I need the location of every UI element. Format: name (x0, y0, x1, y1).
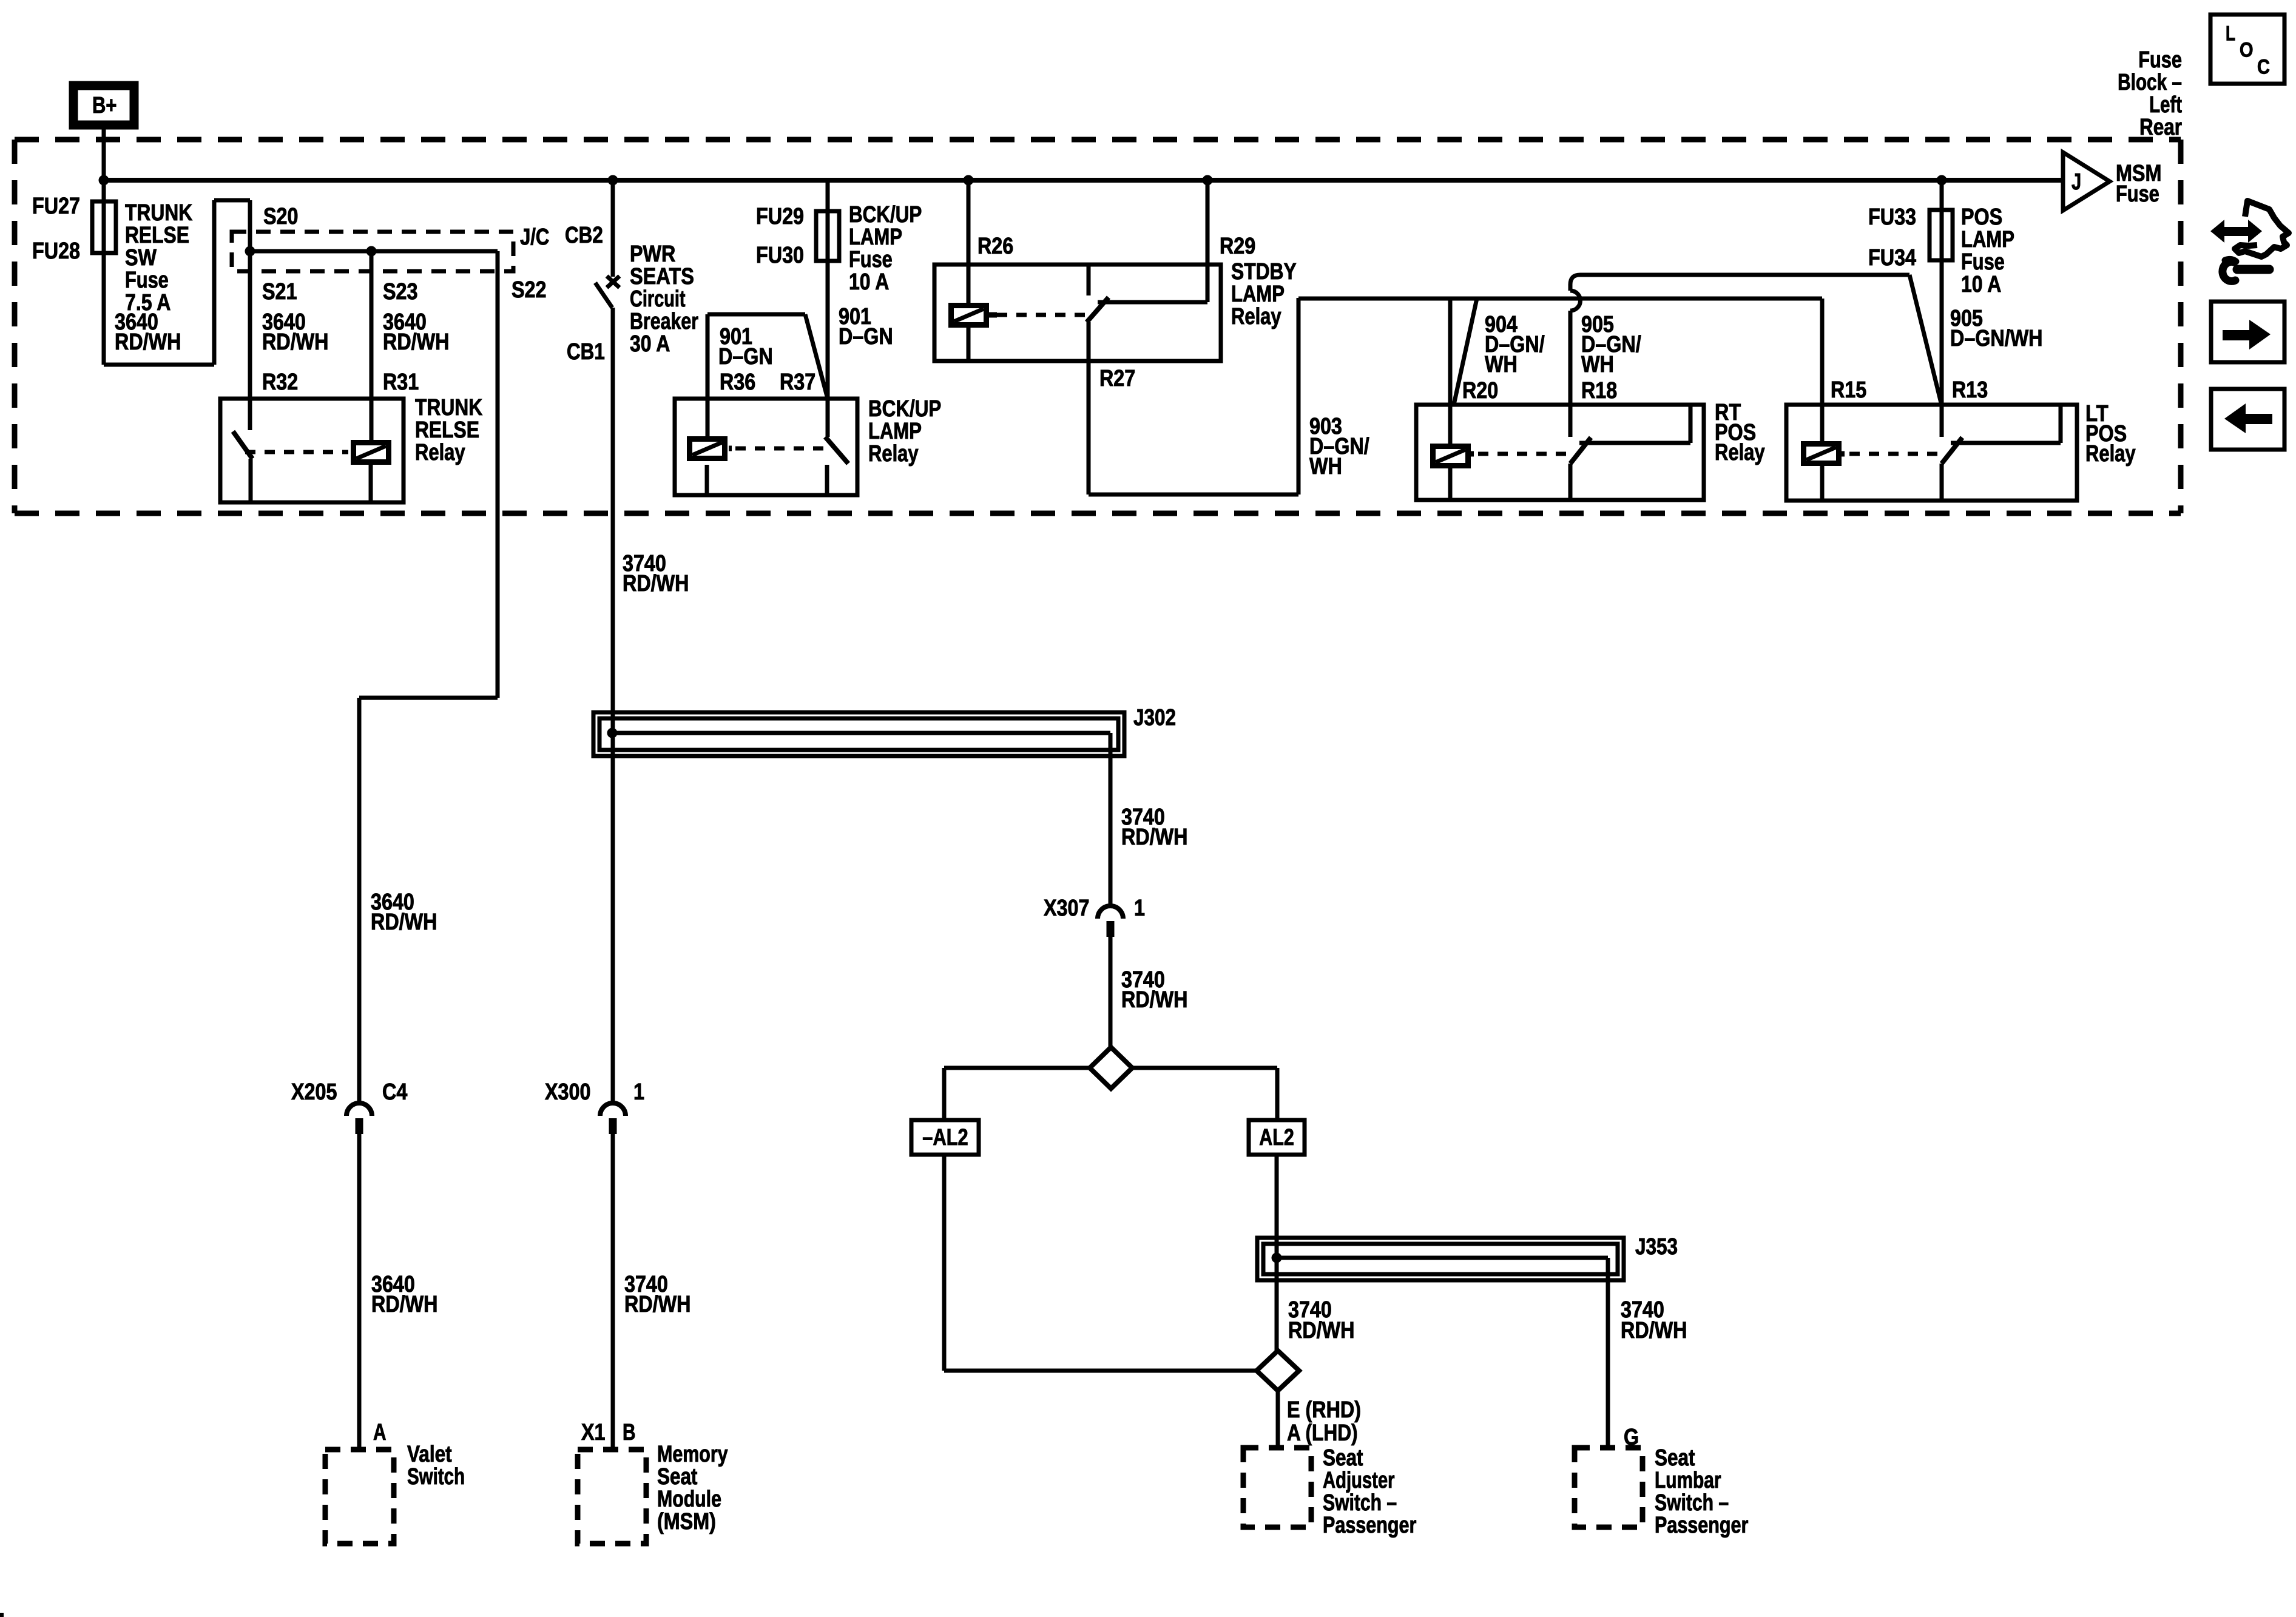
svg-text:RD/WH: RD/WH (262, 329, 328, 355)
svg-text:Lumbar: Lumbar (1655, 1468, 1721, 1493)
svg-text:Relay: Relay (2085, 441, 2136, 467)
svg-text:CB2: CB2 (565, 223, 603, 248)
svg-text:10 A: 10 A (849, 269, 889, 295)
svg-text:Switch: Switch (407, 1464, 465, 1490)
svg-text:R20: R20 (1462, 378, 1498, 403)
svg-text:R13: R13 (1952, 377, 1988, 403)
svg-text:RD/WH: RD/WH (383, 329, 449, 355)
svg-text:WH: WH (1485, 352, 1518, 377)
svg-text:FU29: FU29 (756, 204, 804, 229)
svg-text:FU33: FU33 (1868, 204, 1916, 230)
svg-text:LAMP: LAMP (1231, 282, 1285, 307)
svg-text:B+: B+ (92, 93, 116, 118)
svg-text:RD/WH: RD/WH (1288, 1318, 1354, 1343)
svg-text:PWR: PWR (630, 241, 675, 267)
svg-text:G: G (1624, 1425, 1639, 1450)
svg-text:RD/WH: RD/WH (623, 571, 689, 596)
svg-text:J/C: J/C (520, 224, 549, 250)
svg-text:POS: POS (1961, 204, 2002, 230)
svg-text:RD/WH: RD/WH (624, 1292, 690, 1317)
svg-text:D–GN: D–GN (839, 324, 893, 349)
svg-text:1: 1 (633, 1079, 644, 1105)
svg-text:Fuse: Fuse (2138, 47, 2182, 73)
svg-text:R15: R15 (1831, 377, 1866, 403)
svg-text:S22: S22 (512, 277, 547, 303)
svg-text:X300: X300 (545, 1079, 590, 1105)
svg-text:B: B (623, 1420, 636, 1445)
svg-text:S23: S23 (383, 279, 418, 305)
svg-text:RELSE: RELSE (415, 417, 479, 443)
svg-text:Block –: Block – (2118, 70, 2182, 95)
svg-text:FU30: FU30 (756, 243, 804, 268)
svg-text:AL2: AL2 (1259, 1125, 1294, 1150)
svg-text:R29: R29 (1220, 234, 1255, 259)
svg-text:Fuse: Fuse (1961, 249, 2005, 275)
svg-text:Relay: Relay (1231, 304, 1281, 329)
svg-text:R27: R27 (1099, 366, 1135, 391)
svg-text:Fuse: Fuse (849, 247, 893, 272)
svg-text:R36: R36 (720, 370, 755, 395)
svg-text:Valet: Valet (407, 1442, 452, 1467)
svg-text:S20: S20 (263, 204, 299, 229)
svg-text:FU34: FU34 (1868, 245, 1916, 271)
svg-text:Module: Module (657, 1487, 721, 1512)
svg-text:O: O (2240, 38, 2254, 61)
svg-text:LAMP: LAMP (1961, 227, 2014, 252)
svg-text:–AL2: –AL2 (922, 1125, 968, 1150)
svg-text:FU27: FU27 (32, 194, 80, 219)
svg-text:E (RHD): E (RHD) (1287, 1397, 1361, 1423)
svg-text:BCK/UP: BCK/UP (868, 396, 941, 422)
svg-text:A (LHD): A (LHD) (1287, 1420, 1358, 1446)
svg-text:R26: R26 (977, 234, 1013, 259)
svg-text:LAMP: LAMP (868, 419, 922, 444)
svg-text:D–GN: D–GN (718, 344, 773, 370)
svg-text:RELSE: RELSE (125, 223, 189, 248)
svg-text:Relay: Relay (415, 440, 465, 465)
svg-text:R18: R18 (1581, 378, 1617, 403)
svg-text:X307: X307 (1044, 896, 1089, 921)
svg-text:A: A (373, 1420, 387, 1445)
svg-text:SW: SW (125, 245, 157, 271)
svg-text:Left: Left (2149, 92, 2182, 118)
svg-text:S21: S21 (262, 279, 297, 305)
svg-text:D–GN/WH: D–GN/WH (1950, 326, 2043, 351)
svg-text:LAMP: LAMP (849, 224, 902, 250)
svg-text:FU28: FU28 (32, 238, 80, 264)
svg-text:Relay: Relay (1715, 440, 1765, 465)
svg-text:C4: C4 (382, 1079, 407, 1105)
svg-text:R32: R32 (262, 370, 298, 395)
svg-text:Switch –: Switch – (1323, 1490, 1397, 1516)
svg-text:C: C (2257, 55, 2270, 78)
svg-text:J302: J302 (1133, 705, 1176, 731)
svg-text:Seat: Seat (1655, 1445, 1695, 1471)
svg-text:RD/WH: RD/WH (371, 910, 437, 935)
svg-text:R31: R31 (383, 370, 419, 395)
svg-text:30 A: 30 A (630, 331, 670, 357)
svg-text:10 A: 10 A (1961, 272, 2001, 297)
svg-text:Fuse: Fuse (125, 268, 169, 293)
svg-text:RD/WH: RD/WH (1621, 1318, 1687, 1343)
svg-text:RD/WH: RD/WH (115, 329, 181, 355)
svg-text:1: 1 (1134, 896, 1145, 921)
svg-text:RD/WH: RD/WH (1121, 987, 1187, 1013)
svg-text:SEATS: SEATS (630, 264, 694, 289)
svg-text:STDBY: STDBY (1231, 259, 1297, 285)
svg-text:WH: WH (1581, 352, 1614, 377)
svg-text:Fuse: Fuse (2116, 181, 2159, 207)
svg-text:TRUNK: TRUNK (125, 200, 193, 226)
svg-text:L: L (2226, 22, 2235, 45)
svg-text:Passenger: Passenger (1323, 1513, 1417, 1538)
svg-text:Switch –: Switch – (1655, 1490, 1729, 1516)
svg-text:J353: J353 (1635, 1234, 1678, 1260)
svg-text:TRUNK: TRUNK (415, 395, 483, 420)
svg-text:RD/WH: RD/WH (1121, 825, 1187, 850)
svg-text:CB1: CB1 (567, 339, 605, 365)
svg-text:WH: WH (1309, 454, 1342, 479)
svg-text:X1: X1 (581, 1420, 606, 1445)
svg-text:BCK/UP: BCK/UP (849, 202, 922, 228)
svg-text:Passenger: Passenger (1655, 1513, 1749, 1538)
svg-text:(MSM): (MSM) (657, 1509, 716, 1534)
svg-text:Seat: Seat (1323, 1445, 1363, 1471)
svg-text:Memory: Memory (657, 1442, 728, 1467)
svg-text:RD/WH: RD/WH (371, 1292, 437, 1317)
svg-text:Seat: Seat (657, 1464, 698, 1490)
svg-text:Circuit: Circuit (630, 286, 686, 312)
svg-text:Breaker: Breaker (630, 309, 698, 334)
svg-text:Adjuster: Adjuster (1323, 1468, 1395, 1493)
svg-text:Rear: Rear (2139, 115, 2182, 140)
svg-text:X205: X205 (291, 1079, 337, 1105)
svg-text:Relay: Relay (868, 441, 919, 467)
svg-text:J: J (2071, 169, 2081, 195)
svg-text:R37: R37 (780, 370, 815, 395)
